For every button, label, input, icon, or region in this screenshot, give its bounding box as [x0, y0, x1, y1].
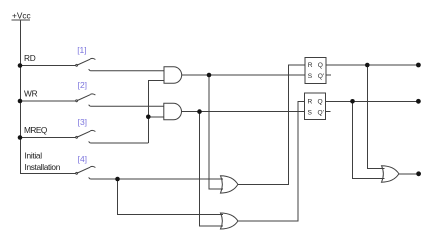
or-gate U6 — [221, 213, 238, 229]
wire WR switch output to AND gate U2 input A — [89, 105, 164, 107]
stub SR latch U7 Q' output — [326, 74, 331, 76]
svg-text:[4]: [4] — [78, 154, 87, 164]
svg-text:[2]: [2] — [78, 80, 87, 90]
svg-text:Q: Q — [318, 62, 323, 69]
junction AND U2 output — [197, 109, 202, 114]
wire MREQ input from bus — [20, 137, 76, 139]
pin label [1] — [77, 45, 86, 55]
label Installation — [25, 162, 61, 172]
and-gate U1 — [164, 67, 182, 84]
label MREQ — [24, 125, 48, 135]
junction AND U1 output — [207, 73, 212, 78]
and-gate U2 — [164, 103, 182, 120]
terminal dot U7 Q — [416, 63, 421, 68]
svg-text:WR: WR — [24, 89, 38, 99]
pin label U7 Q' — [318, 73, 324, 80]
svg-text:+Vcc: +Vcc — [12, 11, 31, 21]
wire AND U2 output branch down to OR gate U6 input B — [200, 112, 224, 226]
pin label U7 R — [308, 62, 313, 69]
svg-text:Q': Q' — [318, 73, 324, 80]
junction U8 Q branch — [350, 99, 355, 104]
pin label U7 Q — [318, 62, 323, 69]
pin label U8 Q' — [318, 109, 324, 116]
SR latch U7 box — [305, 57, 326, 83]
svg-text:MREQ: MREQ — [24, 125, 48, 135]
junction MREQ branch — [146, 115, 151, 120]
svg-text:Initial: Initial — [25, 151, 43, 161]
wire SR latch U7 Q branch down to OR gate U9 input A — [367, 65, 384, 168]
pin label U8 R — [308, 98, 313, 105]
wire OR U9 output to terminal — [399, 173, 417, 175]
wire SR latch U7 Q output to terminal — [326, 64, 419, 66]
svg-text:S: S — [308, 109, 313, 116]
wire AND U2 output to SR latch U8 S input — [182, 111, 305, 113]
stub SR latch U8 Q' output — [326, 111, 331, 113]
pin label U8 Q — [318, 98, 323, 105]
or-gate U9 — [382, 166, 399, 183]
wire SR latch U8 Q output to terminal — [326, 100, 419, 102]
wire RD input from bus — [20, 65, 76, 67]
svg-text:[1]: [1] — [77, 45, 86, 55]
pin label U8 S — [308, 109, 313, 116]
label Initial — [25, 151, 43, 161]
svg-text:S: S — [308, 73, 313, 80]
or-gate U5 — [221, 176, 238, 193]
pin label U7 S — [308, 73, 313, 80]
pin label [4] — [78, 154, 87, 164]
label +Vcc — [12, 11, 31, 21]
wire AND U1 output to SR latch U7 S input — [182, 74, 305, 76]
switch J2 WR blade — [76, 94, 96, 102]
switch J1 RD blade — [76, 58, 96, 66]
pin label [3] — [78, 117, 87, 127]
label RD — [24, 53, 36, 63]
svg-text:Q': Q' — [318, 109, 324, 116]
wire SR latch U8 Q branch down to OR gate U9 input B — [353, 101, 385, 178]
power rail +Vcc bus wire — [21, 20, 76, 174]
pin label [2] — [78, 80, 87, 90]
svg-text:RD: RD — [24, 53, 36, 63]
terminal dot U9 output — [416, 171, 421, 176]
wire OR U5 output up to SR latch U7 R input — [238, 65, 305, 184]
switch J4 Initial Installation blade — [76, 166, 96, 174]
wire OR U6 output up to SR latch U8 R input — [238, 101, 305, 221]
svg-text:[3]: [3] — [78, 117, 87, 127]
wire AND U1 output branch down to OR gate U5 input B — [209, 75, 223, 189]
junction U7 Q branch — [365, 63, 370, 68]
wire MREQ riser to AND inputs — [148, 80, 164, 143]
junction bus-MREQ — [18, 135, 23, 140]
wire MREQ branch to AND gate U2 input B — [148, 116, 164, 118]
junction Initial Installation branch — [115, 177, 120, 182]
svg-text:R: R — [308, 62, 313, 69]
junction bus-WR — [18, 99, 23, 104]
switch J3 MREQ blade — [76, 130, 96, 138]
wire Initial Installation switch output to OR gate U5 input A — [89, 178, 223, 180]
wire WR input from bus — [20, 100, 76, 102]
junction bus-RD — [18, 63, 23, 68]
svg-text:Installation: Installation — [25, 162, 61, 172]
wire MREQ switch output — [89, 142, 149, 144]
wire RD switch output to AND gate U1 input A — [89, 69, 164, 71]
label WR — [24, 89, 38, 99]
terminal dot U8 Q — [416, 99, 421, 104]
svg-text:Q: Q — [318, 98, 323, 105]
wire Initial Installation branch down to OR gate U6 input A — [118, 179, 224, 214]
SR latch U8 box — [305, 93, 326, 120]
svg-text:R: R — [308, 98, 313, 105]
